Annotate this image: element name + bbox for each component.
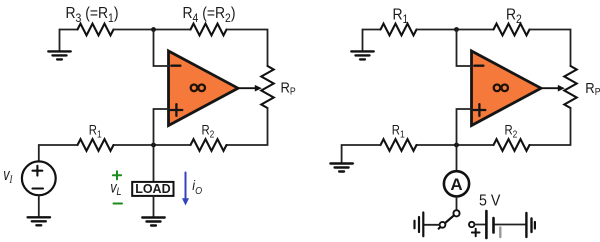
resistor R4 — [191, 24, 227, 36]
wire R2 to node D — [417, 144, 494, 146]
switch pole circle — [453, 210, 459, 216]
resistor R3 — [78, 24, 114, 36]
op-amp U1 (left) — [169, 51, 239, 126]
wire Rp bottom to mid rail — [227, 108, 268, 145]
svg-text:iO: iO — [192, 178, 202, 197]
wire node A to inverting input — [154, 30, 169, 67]
potentiometer Rp (right) — [564, 66, 576, 108]
node B (mid junction dot) — [151, 143, 156, 148]
wire R2 to corner down to Rp — [530, 30, 571, 67]
label R3 (=R1) — [66, 4, 119, 25]
wire node C to inverting input — [457, 30, 472, 67]
wire R1 to ground corner — [342, 145, 381, 163]
node D (mid junction dot) — [454, 143, 459, 148]
label R1 — [392, 123, 405, 140]
svg-text:R4 (=R2): R4 (=R2) — [183, 4, 236, 25]
potentiometer Rp (left) — [261, 66, 273, 108]
resistor R1 (top right ckt) — [381, 24, 417, 36]
minus sign — [171, 65, 180, 67]
svg-text:vI: vI — [3, 167, 13, 187]
svg-text:R2: R2 — [506, 5, 522, 26]
wire R2 to node B — [114, 144, 191, 146]
ground (under LOAD) — [142, 218, 164, 226]
label Rp — [585, 79, 600, 97]
label R2 — [202, 123, 215, 140]
svg-text:vL: vL — [110, 179, 121, 198]
resistor R2 (mid right ckt) — [494, 139, 530, 151]
resistor R1 (left mid) — [78, 139, 114, 151]
ground (under vI) — [28, 217, 50, 225]
open terminal circle (5V battery) — [469, 222, 474, 227]
wire 5V battery to right battery — [495, 224, 525, 226]
svg-text:R1: R1 — [392, 123, 405, 140]
label R1 — [89, 123, 102, 140]
node A (top junction dot) — [151, 27, 156, 32]
wire node D to non-inverting input — [457, 109, 472, 145]
wire R1 to vI — [39, 145, 78, 162]
wire switch to left battery — [425, 224, 440, 226]
wire R1 to node C — [417, 29, 494, 31]
battery (left) — [415, 213, 424, 237]
label 5 V — [479, 192, 501, 210]
label vI — [3, 167, 13, 187]
minus sign — [474, 65, 483, 67]
wire terminal to 5V battery — [474, 224, 485, 226]
svg-text:RP: RP — [585, 79, 600, 97]
voltage source vI — [22, 161, 56, 195]
svg-text:R2: R2 — [505, 123, 518, 140]
ground (top-left right circuit) — [362, 30, 364, 52]
blue current arrow iO — [185, 173, 187, 200]
label R2 — [505, 123, 518, 140]
green minus label — [114, 203, 123, 205]
green + label — [113, 171, 121, 179]
ammeter A — [444, 171, 469, 196]
plus sign — [474, 109, 486, 111]
wire ammeter to switch — [456, 196, 458, 210]
wire vI to ground — [38, 195, 40, 217]
switch blade — [439, 215, 455, 229]
label R4 (=R2) — [183, 4, 236, 25]
label R1 — [393, 5, 409, 26]
resistor R1 (mid right ckt) — [381, 139, 417, 151]
wire R3 to node A — [114, 29, 191, 31]
plus sign (battery polarity) — [472, 229, 480, 237]
resistor R2 (top right ckt) — [494, 24, 530, 36]
op-amp output wire with wiper arrow — [238, 87, 256, 89]
op-amp U2 (right) — [472, 51, 542, 126]
svg-text:R3 (=R1): R3 (=R1) — [66, 4, 119, 25]
ground (top-left) — [59, 30, 61, 52]
label iO — [192, 178, 202, 197]
svg-text:R2: R2 — [202, 123, 215, 140]
svg-text:R1: R1 — [393, 5, 409, 26]
wire node D down to ammeter — [456, 145, 458, 171]
ground (mid-left right ckt) — [330, 164, 352, 172]
gray tick — [499, 228, 501, 238]
wire to R1 top — [363, 29, 381, 31]
resistor R2 (left mid) — [191, 139, 227, 151]
LOAD box — [132, 182, 173, 196]
switch throw circle (left) — [440, 222, 446, 228]
wire top-left to R3 — [60, 29, 78, 31]
svg-text:LOAD: LOAD — [135, 182, 170, 196]
infinity symbol — [191, 85, 205, 92]
label Rp — [281, 79, 296, 97]
svg-text:RP: RP — [281, 79, 296, 97]
node C (top junction dot) — [454, 27, 459, 32]
op-amp output wire with wiper arrow — [541, 87, 559, 89]
svg-text:A: A — [450, 175, 462, 194]
infinity symbol — [494, 85, 508, 92]
wire node B to non-inverting input — [154, 109, 169, 145]
wire R4 to top-right corner down to Rp — [227, 30, 268, 67]
svg-text:5 V: 5 V — [479, 192, 501, 210]
wire node B down to LOAD — [153, 145, 155, 182]
wire Rp bottom to mid rail — [530, 108, 571, 145]
battery 5V (middle) — [486, 211, 493, 238]
plus sign — [171, 109, 183, 111]
battery (right) — [526, 213, 535, 237]
green vL label — [110, 179, 121, 198]
svg-text:R1: R1 — [89, 123, 102, 140]
label R2 — [506, 5, 522, 26]
wire LOAD to ground — [153, 196, 155, 217]
